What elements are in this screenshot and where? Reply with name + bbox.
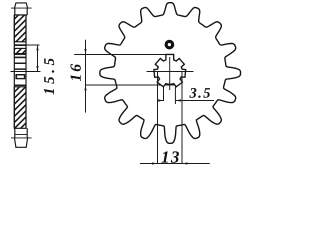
16 dimension line (84, 40, 86, 113)
crosshair (147, 57, 194, 90)
dimension 15.5 (26, 45, 40, 72)
bottom pitch tick line (11, 137, 32, 139)
spline box section (15, 74, 25, 79)
bottom tooth base inner line (15, 134, 27, 136)
hub band (14, 44, 26, 46)
bore top line (14, 54, 26, 56)
sprocket outline (100, 3, 241, 144)
small hole donut (166, 41, 173, 48)
center line (left view) (11, 71, 41, 73)
text 15.5 (44, 89, 54, 95)
13 dimension (140, 72, 210, 165)
top pitch tick line (11, 7, 32, 9)
small hatch zone (14, 48, 26, 53)
spline bore (154, 54, 186, 86)
text 13 (161, 151, 167, 162)
top tooth base (15, 8, 27, 15)
column edges (14, 15, 26, 128)
upper hatched plate (14, 15, 26, 42)
bore bottom band (14, 85, 26, 87)
3.5 dimension (158, 86, 215, 105)
text 3.5 (189, 88, 196, 98)
spline band top (14, 57, 26, 59)
band above center (14, 68, 26, 70)
top tooth trapezoid (15, 3, 28, 8)
bottom tooth trapezoid (15, 138, 28, 147)
text 16 (70, 75, 80, 81)
bore edge band (14, 63, 26, 65)
16 dim extension lines (74, 55, 175, 86)
lower hatched plate (14, 87, 26, 129)
bottom tooth base (15, 128, 27, 138)
